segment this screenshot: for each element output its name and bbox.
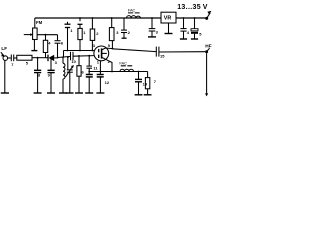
svg-text:LF: LF — [1, 46, 7, 51]
svg-text:15: 15 — [160, 54, 165, 59]
svg-text:HF: HF — [205, 44, 211, 50]
svg-text:14: 14 — [143, 82, 148, 87]
svg-text:10: 10 — [71, 59, 76, 64]
svg-text:VR: VR — [164, 16, 172, 22]
svg-text:FAC: FAC — [119, 61, 127, 66]
svg-text:FM: FM — [36, 20, 43, 25]
svg-text:FAC: FAC — [128, 7, 136, 12]
svg-text:13...35 V: 13...35 V — [177, 4, 208, 11]
svg-text:12: 12 — [105, 80, 110, 85]
